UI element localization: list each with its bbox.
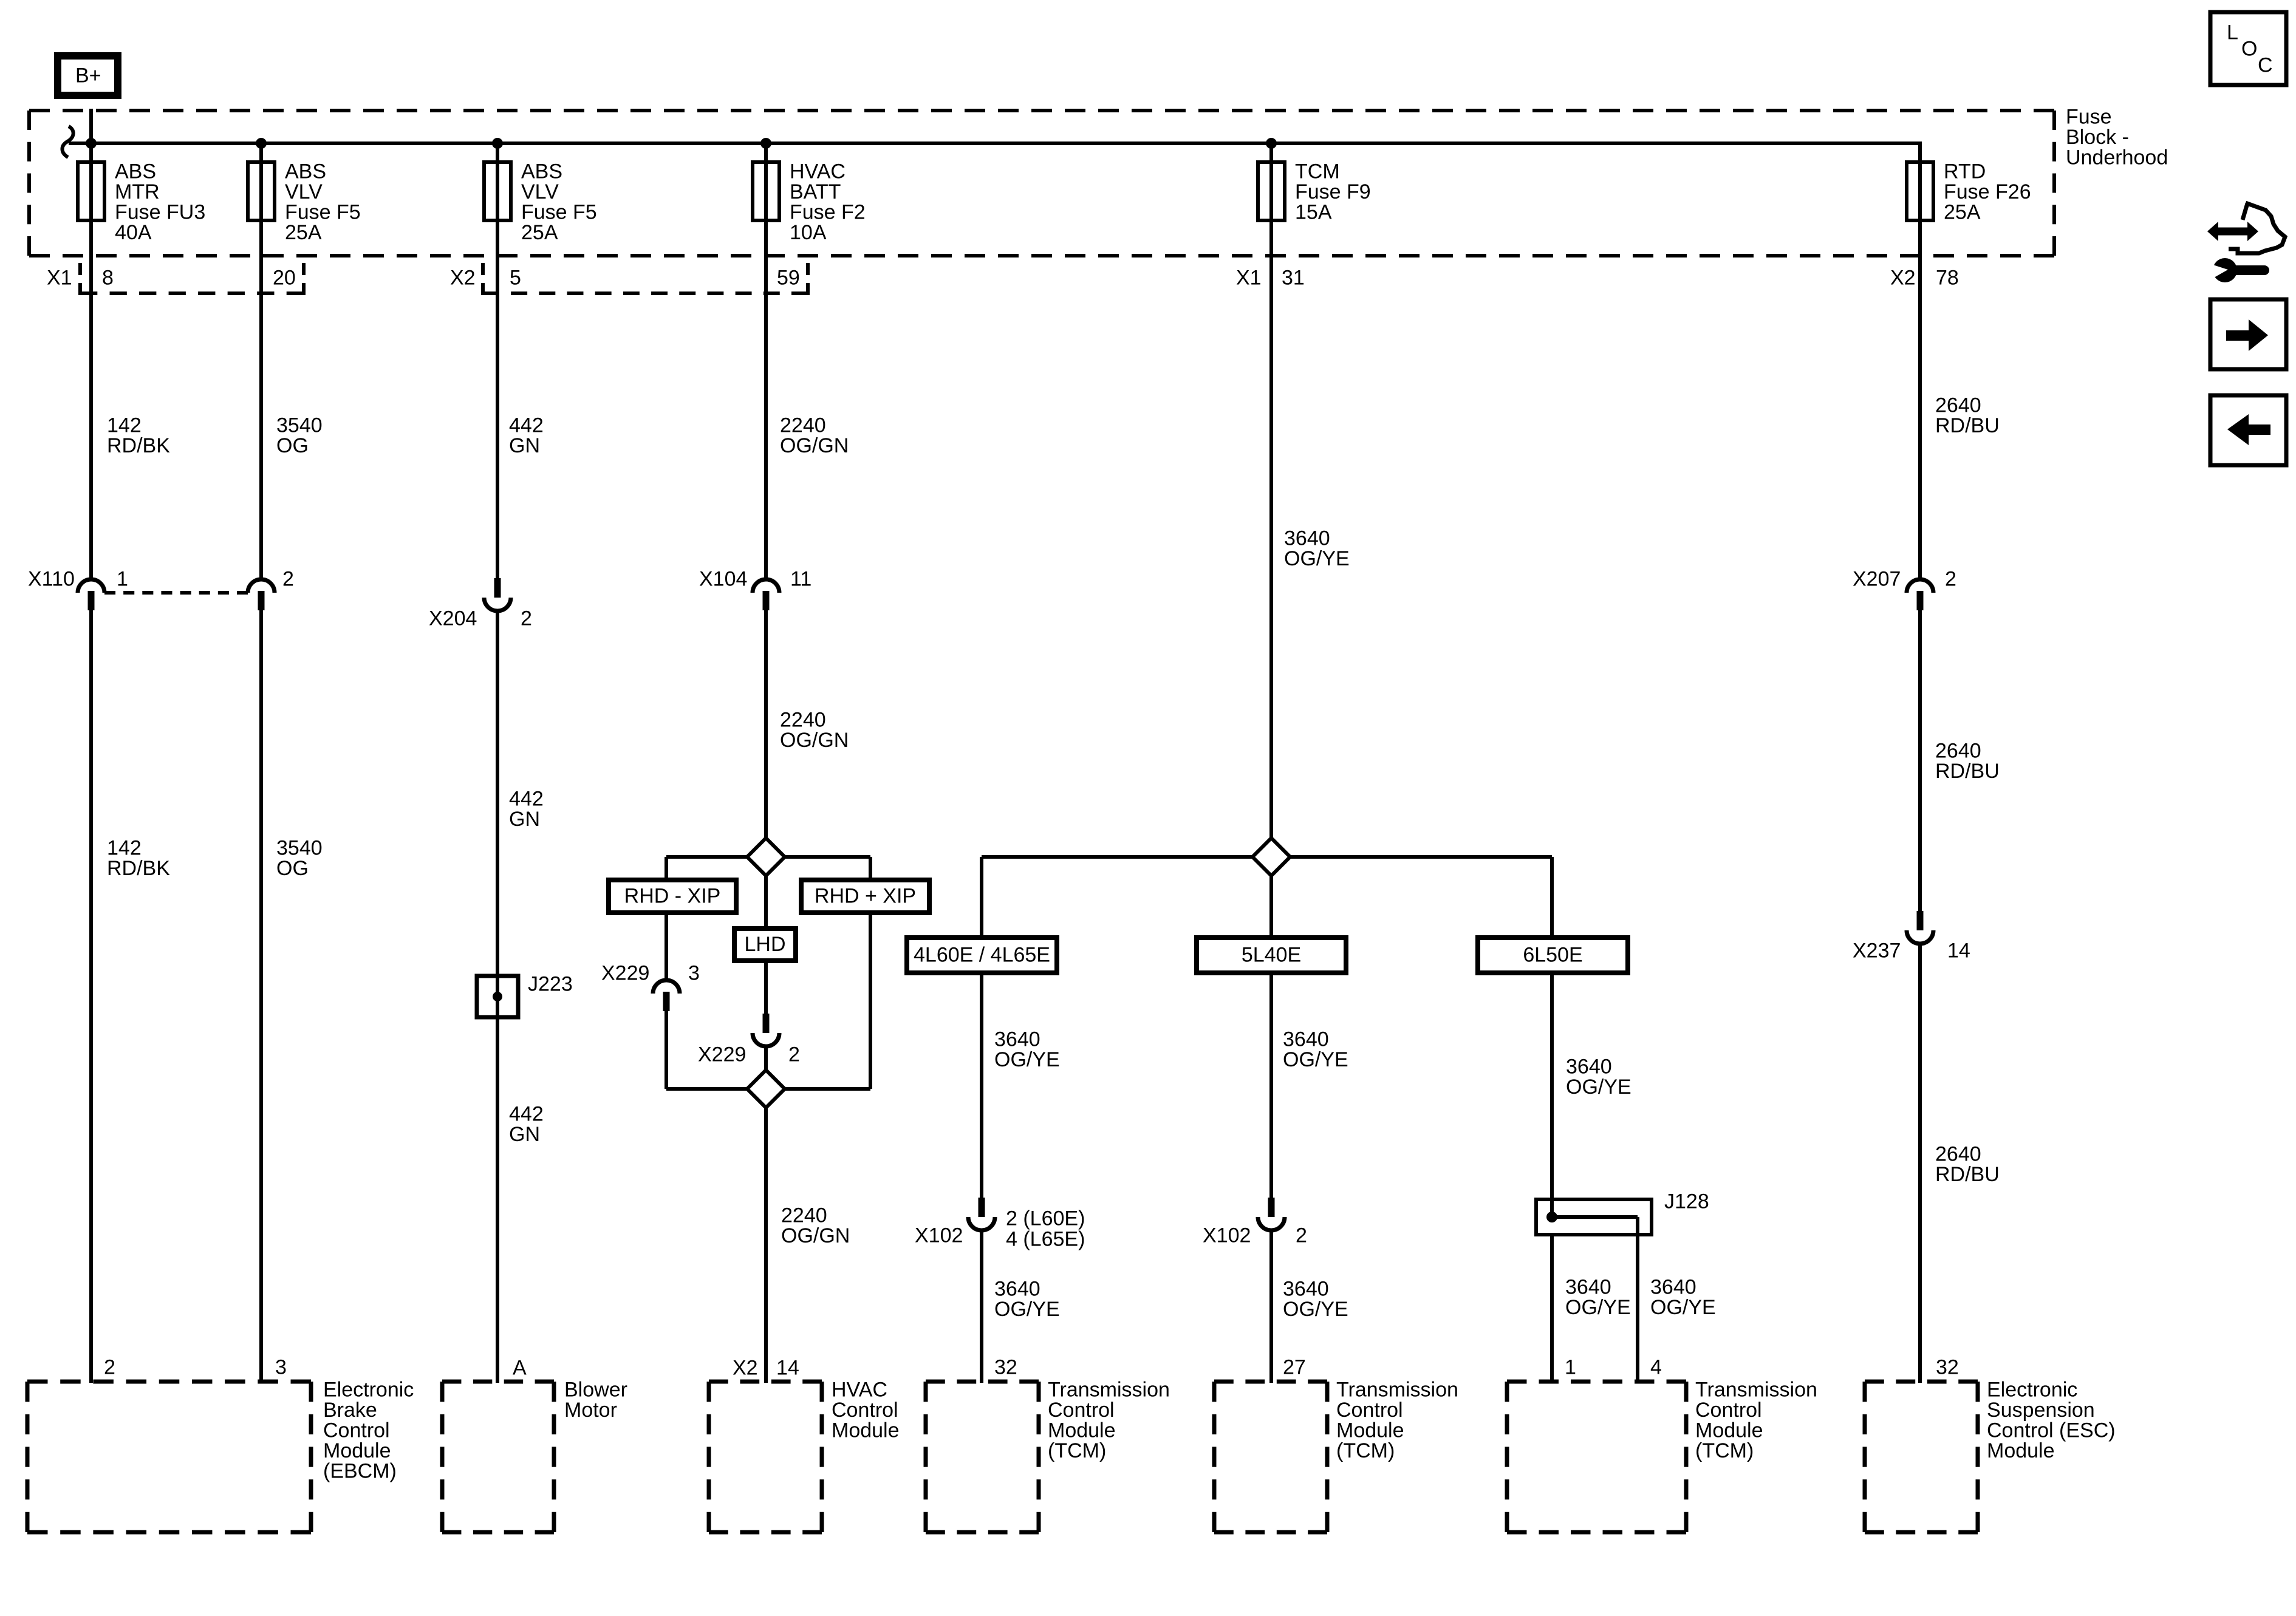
svg-text:3640: 3640: [994, 1028, 1040, 1051]
svg-text:2: 2: [1296, 1224, 1307, 1247]
svg-text:(EBCM): (EBCM): [323, 1459, 397, 1482]
svg-text:3540: 3540: [276, 414, 323, 437]
svg-text:Module: Module: [323, 1439, 391, 1462]
svg-text:ABS: ABS: [115, 160, 156, 183]
svg-text:ABS: ABS: [521, 160, 562, 183]
svg-text:Control: Control: [1048, 1399, 1115, 1422]
svg-text:O: O: [2241, 37, 2257, 60]
svg-text:OG: OG: [276, 857, 309, 880]
svg-text:Fuse F9: Fuse F9: [1295, 180, 1371, 203]
svg-text:1: 1: [117, 567, 128, 590]
svg-text:Block -: Block -: [2066, 126, 2129, 149]
svg-text:Motor: Motor: [564, 1399, 617, 1422]
svg-text:3640: 3640: [1283, 1277, 1329, 1300]
svg-text:J223: J223: [528, 972, 573, 995]
svg-text:2: 2: [282, 567, 294, 590]
svg-text:442: 442: [509, 787, 544, 810]
svg-text:4L60E / 4L65E: 4L60E / 4L65E: [914, 944, 1050, 967]
svg-text:LHD: LHD: [744, 933, 785, 956]
svg-text:BATT: BATT: [790, 180, 841, 203]
svg-text:31: 31: [1282, 266, 1305, 289]
svg-text:25A: 25A: [521, 221, 558, 244]
svg-text:C: C: [2258, 53, 2273, 77]
svg-text:2: 2: [1945, 567, 1956, 590]
svg-text:X204: X204: [429, 607, 477, 630]
svg-text:OG/YE: OG/YE: [1650, 1296, 1716, 1319]
svg-text:J128: J128: [1664, 1190, 1709, 1213]
svg-text:Electronic: Electronic: [1987, 1378, 2077, 1401]
svg-text:Module: Module: [832, 1419, 900, 1442]
svg-text:Module: Module: [1336, 1419, 1404, 1442]
svg-text:HVAC: HVAC: [832, 1378, 887, 1401]
svg-text:OG/GN: OG/GN: [781, 1224, 850, 1247]
svg-text:6L50E: 6L50E: [1523, 944, 1582, 967]
svg-text:HVAC: HVAC: [790, 160, 846, 183]
svg-text:X2: X2: [450, 266, 476, 289]
svg-text:X110: X110: [28, 567, 75, 590]
svg-text:142: 142: [107, 414, 142, 437]
svg-text:A: A: [513, 1356, 527, 1379]
svg-text:Control: Control: [1695, 1399, 1762, 1422]
svg-text:RTD: RTD: [1944, 160, 1986, 183]
svg-text:OG/GN: OG/GN: [780, 434, 849, 457]
svg-text:142: 142: [107, 836, 142, 859]
svg-text:L: L: [2227, 21, 2238, 44]
svg-text:27: 27: [1283, 1355, 1306, 1379]
svg-text:2240: 2240: [780, 414, 826, 437]
svg-text:(TCM): (TCM): [1695, 1439, 1754, 1462]
svg-text:3: 3: [688, 961, 700, 984]
svg-text:Fuse F2: Fuse F2: [790, 200, 866, 223]
svg-text:2640: 2640: [1935, 739, 1981, 762]
svg-text:X104: X104: [699, 567, 747, 590]
svg-text:3: 3: [275, 1355, 287, 1379]
svg-text:X102: X102: [1203, 1224, 1251, 1247]
svg-text:X1: X1: [1236, 266, 1262, 289]
svg-text:OG/GN: OG/GN: [780, 729, 849, 752]
svg-text:5L40E: 5L40E: [1242, 944, 1301, 967]
svg-text:2640: 2640: [1935, 394, 1981, 417]
svg-text:(TCM): (TCM): [1336, 1439, 1395, 1462]
svg-text:32: 32: [994, 1355, 1017, 1379]
svg-text:VLV: VLV: [285, 180, 323, 203]
svg-text:78: 78: [1936, 266, 1959, 289]
svg-text:Underhood: Underhood: [2066, 146, 2168, 169]
svg-text:X1: X1: [47, 266, 72, 289]
svg-text:25A: 25A: [285, 221, 322, 244]
svg-text:3540: 3540: [276, 836, 323, 859]
svg-text:442: 442: [509, 1102, 544, 1125]
svg-text:Electronic: Electronic: [323, 1378, 414, 1401]
svg-text:15A: 15A: [1295, 200, 1332, 223]
svg-text:4 (L65E): 4 (L65E): [1006, 1227, 1085, 1250]
svg-text:OG/YE: OG/YE: [994, 1048, 1060, 1071]
svg-text:Module: Module: [1048, 1419, 1116, 1442]
svg-text:Transmission: Transmission: [1336, 1378, 1458, 1401]
svg-text:2 (L60E): 2 (L60E): [1006, 1207, 1085, 1230]
svg-text:2: 2: [788, 1043, 800, 1066]
svg-text:10A: 10A: [790, 221, 827, 244]
svg-text:Fuse: Fuse: [2066, 105, 2112, 128]
svg-text:OG/YE: OG/YE: [994, 1298, 1060, 1321]
svg-text:11: 11: [790, 567, 811, 590]
svg-text:VLV: VLV: [521, 180, 559, 203]
svg-text:4: 4: [1650, 1355, 1662, 1379]
svg-text:Fuse FU3: Fuse FU3: [115, 200, 205, 223]
svg-text:2: 2: [521, 607, 532, 630]
svg-text:Fuse F26: Fuse F26: [1944, 180, 2031, 203]
svg-text:59: 59: [777, 266, 800, 289]
svg-text:X2: X2: [733, 1356, 758, 1379]
svg-text:Transmission: Transmission: [1048, 1378, 1170, 1401]
svg-text:Control: Control: [832, 1399, 898, 1422]
svg-text:X237: X237: [1853, 939, 1901, 962]
svg-text:40A: 40A: [115, 221, 152, 244]
svg-text:Suspension: Suspension: [1987, 1399, 2095, 1422]
svg-text:8: 8: [102, 266, 114, 289]
svg-text:X2: X2: [1890, 266, 1916, 289]
svg-text:25A: 25A: [1944, 200, 1981, 223]
svg-text:RD/BK: RD/BK: [107, 434, 170, 457]
svg-text:RHD + XIP: RHD + XIP: [815, 885, 916, 908]
svg-text:Brake: Brake: [323, 1399, 377, 1422]
svg-text:RHD - XIP: RHD - XIP: [624, 885, 721, 908]
svg-text:RD/BK: RD/BK: [107, 857, 170, 880]
svg-text:X207: X207: [1853, 567, 1901, 590]
svg-text:RD/BU: RD/BU: [1935, 414, 2000, 437]
svg-text:Control: Control: [323, 1419, 390, 1442]
svg-text:32: 32: [1936, 1355, 1959, 1379]
svg-text:(TCM): (TCM): [1048, 1439, 1106, 1462]
svg-text:3640: 3640: [994, 1277, 1040, 1300]
svg-text:Fuse F5: Fuse F5: [521, 200, 597, 223]
svg-text:2640: 2640: [1935, 1142, 1981, 1165]
svg-text:OG: OG: [276, 434, 309, 457]
svg-text:ABS: ABS: [285, 160, 326, 183]
svg-text:X229: X229: [601, 961, 649, 984]
svg-text:Fuse F5: Fuse F5: [285, 200, 361, 223]
svg-text:X102: X102: [915, 1224, 963, 1247]
svg-text:RD/BU: RD/BU: [1935, 1163, 2000, 1186]
svg-text:14: 14: [776, 1356, 799, 1379]
svg-text:MTR: MTR: [115, 180, 160, 203]
svg-text:Control (ESC): Control (ESC): [1987, 1419, 2116, 1442]
svg-text:2240: 2240: [781, 1204, 827, 1227]
svg-text:GN: GN: [509, 434, 540, 457]
svg-text:20: 20: [273, 266, 296, 289]
svg-text:X229: X229: [698, 1043, 746, 1066]
svg-text:B+: B+: [75, 64, 101, 87]
svg-text:2240: 2240: [780, 708, 826, 731]
svg-text:Module: Module: [1987, 1439, 2055, 1462]
svg-text:Control: Control: [1336, 1399, 1403, 1422]
svg-text:Blower: Blower: [564, 1378, 627, 1401]
svg-text:14: 14: [1947, 939, 1970, 962]
svg-text:2: 2: [104, 1355, 115, 1379]
svg-text:3640: 3640: [1283, 1028, 1329, 1051]
svg-text:3640: 3640: [1566, 1055, 1612, 1078]
svg-text:Transmission: Transmission: [1695, 1378, 1817, 1401]
svg-text:Module: Module: [1695, 1419, 1763, 1442]
svg-text:OG/YE: OG/YE: [1566, 1076, 1631, 1099]
svg-text:OG/YE: OG/YE: [1565, 1296, 1631, 1319]
svg-text:3640: 3640: [1565, 1275, 1611, 1298]
svg-text:1: 1: [1565, 1355, 1576, 1379]
svg-text:GN: GN: [509, 1123, 540, 1146]
svg-text:TCM: TCM: [1295, 160, 1340, 183]
svg-text:OG/YE: OG/YE: [1284, 547, 1350, 570]
svg-text:442: 442: [509, 414, 544, 437]
svg-text:OG/YE: OG/YE: [1283, 1298, 1348, 1321]
svg-text:3640: 3640: [1284, 527, 1330, 550]
svg-text:RD/BU: RD/BU: [1935, 760, 2000, 783]
svg-text:3640: 3640: [1650, 1275, 1696, 1298]
svg-text:OG/YE: OG/YE: [1283, 1048, 1348, 1071]
svg-text:5: 5: [510, 266, 521, 289]
svg-text:GN: GN: [509, 808, 540, 831]
